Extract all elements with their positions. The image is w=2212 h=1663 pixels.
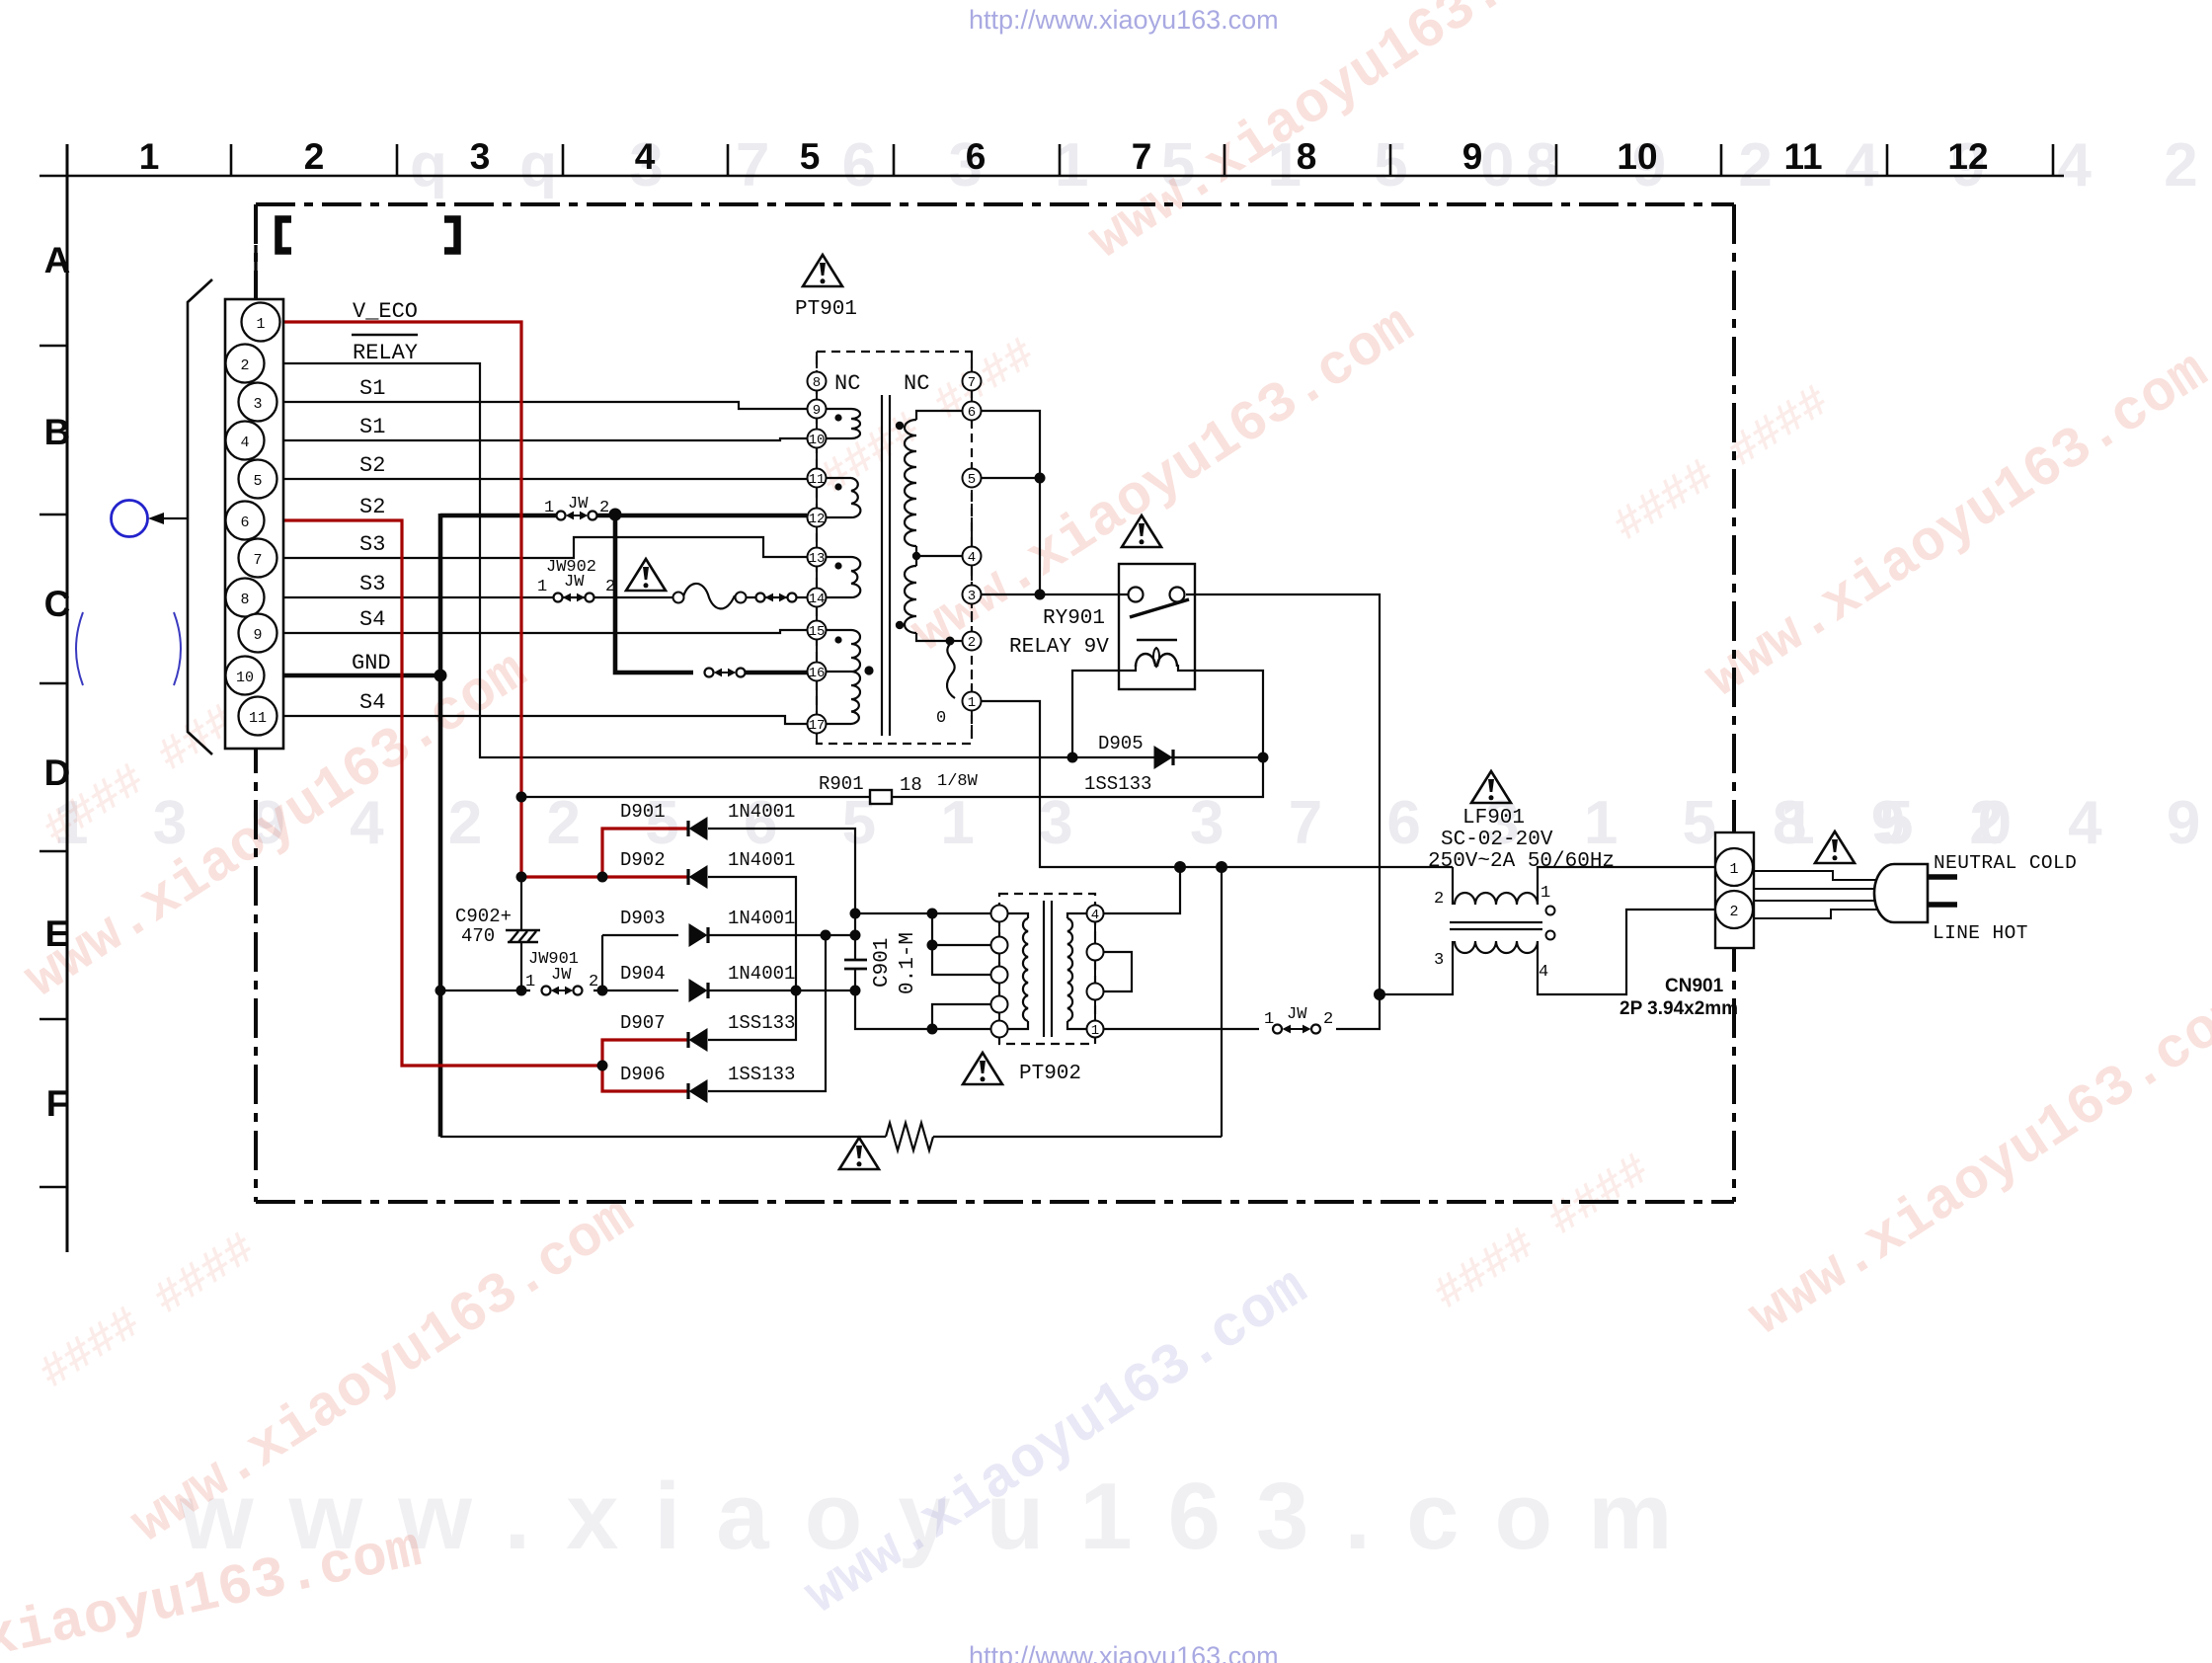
svg-text:http://www.xiaoyu163.com: http://www.xiaoyu163.com xyxy=(969,1641,1279,1663)
PT901 secondary winding lower xyxy=(905,556,950,641)
svg-text:3: 3 xyxy=(968,589,976,604)
svg-text:#### ####: #### #### xyxy=(1425,1145,1659,1321)
warning LF901 xyxy=(1471,771,1511,803)
svg-text:10: 10 xyxy=(809,433,826,448)
wire D903/D904 left link xyxy=(601,935,603,990)
pin 5 xyxy=(239,460,277,499)
plug prongs xyxy=(1928,874,1957,880)
svg-text:1: 1 xyxy=(544,499,554,517)
PT902 pin circles xyxy=(991,906,1104,1038)
svg-text:D906: D906 xyxy=(620,1064,666,1085)
pin 3 xyxy=(239,383,277,422)
wire D905 row xyxy=(1072,756,1263,758)
svg-text:4: 4 xyxy=(635,136,656,177)
wire LF901 pin4 to CN901 pin2 xyxy=(1538,910,1715,994)
LF901 phase circles xyxy=(1546,907,1555,915)
svg-text:1: 1 xyxy=(139,136,160,177)
svg-text:1SS133: 1SS133 xyxy=(728,1064,795,1085)
jumper pin16 xyxy=(705,669,746,677)
svg-text:NEUTRAL COLD: NEUTRAL COLD xyxy=(1934,852,2077,874)
node AC rail bottom riser xyxy=(1216,861,1227,873)
relay contacts xyxy=(1129,588,1144,602)
svg-text:8 9 2 4 9 4 2 9: 8 9 2 4 9 4 2 9 xyxy=(1773,789,2212,857)
PT901 core xyxy=(881,395,883,736)
wire S2 pin6 red rail xyxy=(279,520,602,1066)
diode D906 xyxy=(688,1079,708,1103)
wire pin9 S4 to PT901 pin15 xyxy=(279,630,807,633)
wire JW901 row xyxy=(440,990,530,991)
node red D902 row left xyxy=(516,872,527,883)
svg-text:8: 8 xyxy=(240,592,249,608)
resistor R901 body xyxy=(870,790,892,804)
svg-text:2: 2 xyxy=(1729,904,1738,920)
node C901 top D903 xyxy=(850,930,861,941)
node blue circle xyxy=(112,501,148,537)
fuse wavy wire xyxy=(683,584,735,608)
pin 2 xyxy=(226,345,265,383)
svg-text:14: 14 xyxy=(809,592,826,607)
dash-dot schematic border xyxy=(256,204,1734,1202)
blue parens marks xyxy=(76,612,83,685)
svg-text:11: 11 xyxy=(809,472,826,488)
svg-text:2: 2 xyxy=(1434,890,1444,909)
svg-text:1SS133: 1SS133 xyxy=(1084,773,1151,795)
svg-text:E: E xyxy=(45,913,70,954)
svg-text:1: 1 xyxy=(1264,1010,1274,1029)
wire pin7 S3 to PT901 pin13 xyxy=(279,537,807,558)
svg-text:http://www.xiaoyu163.com: http://www.xiaoyu163.com xyxy=(969,5,1279,35)
PT901 right pin column dashed xyxy=(971,352,973,736)
jumper JW PT902 xyxy=(1273,1025,1320,1034)
svg-text:GND: GND xyxy=(352,651,391,675)
svg-text:18: 18 xyxy=(900,774,922,796)
svg-text:RELAY: RELAY xyxy=(353,341,418,365)
svg-text:www.xiaoyu163.com: www.xiaoyu163.com xyxy=(794,1256,1319,1628)
wire R901 to D905 node xyxy=(892,757,1263,797)
svg-text:1: 1 xyxy=(525,973,535,991)
wire pin8 S3 through JW902 to PT901 pin14 xyxy=(279,596,678,598)
svg-text:S3: S3 xyxy=(359,532,385,557)
svg-text:6: 6 xyxy=(968,405,976,421)
warning PT901 xyxy=(803,255,842,286)
row ticks xyxy=(39,345,67,348)
svg-text:CN901: CN901 xyxy=(1665,976,1724,996)
CN901 body xyxy=(1715,832,1754,948)
svg-text:D904: D904 xyxy=(620,963,666,985)
svg-text:F: F xyxy=(46,1083,69,1124)
svg-text:2: 2 xyxy=(968,635,976,651)
svg-text:PT902: PT902 xyxy=(1019,1063,1081,1085)
node PT902 L1/L2 xyxy=(927,909,938,919)
node red rail D906/D907 xyxy=(597,1061,608,1071)
node JW901 cap xyxy=(516,986,527,996)
svg-text:15: 15 xyxy=(809,624,826,640)
ruler left line xyxy=(66,144,69,1252)
wire PT902 pin1 jumper line xyxy=(1103,1028,1259,1030)
svg-text:2: 2 xyxy=(304,136,325,177)
svg-text:D905: D905 xyxy=(1098,733,1144,754)
wire LF901 pin1 to CN901 pin1 xyxy=(1538,867,1715,905)
wire R901 row xyxy=(521,796,870,798)
wire JW row to PT901 pin12 xyxy=(440,514,561,518)
pin 11 xyxy=(239,697,277,736)
svg-text:SC-02-20V: SC-02-20V xyxy=(1441,829,1553,851)
svg-text:R901: R901 xyxy=(819,773,864,795)
warning PT902 xyxy=(963,1053,1002,1084)
wire PT901 pin5 to rail xyxy=(981,477,1040,479)
wire GND pin10 to junction xyxy=(279,673,440,678)
wire PT902 L2 branch xyxy=(932,913,991,945)
node PT901 rail pin3 xyxy=(1035,590,1046,600)
connector bracket xyxy=(188,279,212,754)
pin 9 xyxy=(239,614,277,653)
svg-text:4: 4 xyxy=(1091,908,1099,923)
jumper JW top xyxy=(557,512,597,520)
plug wire 2 xyxy=(1754,900,1888,902)
svg-text:250V~2A 50/60Hz: 250V~2A 50/60Hz xyxy=(1428,850,1615,873)
svg-text:470: 470 xyxy=(461,925,495,947)
resistor zigzag xyxy=(886,1123,933,1150)
svg-text:S1: S1 xyxy=(359,376,385,401)
node D905 right xyxy=(1258,752,1269,763)
svg-text:LF901: LF901 xyxy=(1462,807,1525,830)
svg-text:9: 9 xyxy=(1462,136,1483,177)
plug body xyxy=(1874,864,1928,922)
PT902 right winding xyxy=(1067,913,1087,1029)
svg-text:1SS133: 1SS133 xyxy=(728,1012,795,1034)
svg-text:7: 7 xyxy=(968,375,976,391)
svg-text:B: B xyxy=(44,412,71,452)
fuse circles pin14 wavy xyxy=(673,593,684,603)
wire D903 anode row xyxy=(602,934,678,936)
pin 1 xyxy=(242,303,280,342)
wire PT902 L5 stub xyxy=(932,1028,991,1030)
wire PT902 L3 branch xyxy=(932,945,991,975)
node R901/red junction xyxy=(516,792,527,803)
LF901 bottom winding xyxy=(1455,941,1538,953)
warning JW902 fuse xyxy=(626,559,666,591)
node red D901/D902 branch xyxy=(597,872,608,883)
diode D903 xyxy=(689,923,709,947)
wire D906 cathode riser xyxy=(708,935,826,1091)
svg-text:5: 5 xyxy=(253,473,262,490)
wire pin3 S1 to PT901 pin9 xyxy=(279,402,807,409)
svg-text:C: C xyxy=(44,584,71,624)
wire PT902 L1 row xyxy=(855,912,991,914)
wire relay coil left leg xyxy=(1072,665,1136,757)
svg-text:D907: D907 xyxy=(620,1012,666,1034)
svg-text:6: 6 xyxy=(966,136,987,177)
node PT902 L4/L5 xyxy=(927,1024,938,1035)
jumper JW901 xyxy=(542,987,583,995)
junction dots xyxy=(434,473,1386,1071)
svg-text:2: 2 xyxy=(589,973,598,991)
wire V_ECO pin1 red xyxy=(279,322,521,877)
svg-text:4: 4 xyxy=(1539,963,1548,982)
wire red to D906 xyxy=(602,1066,688,1091)
plug wire 1 xyxy=(1754,871,1888,918)
svg-text:NC: NC xyxy=(904,371,929,396)
svg-text:12: 12 xyxy=(1947,136,1988,177)
svg-text:JW: JW xyxy=(1287,1005,1307,1024)
node C901 bottom D904 xyxy=(850,986,861,996)
diode D904 xyxy=(689,979,709,1002)
svg-text:3: 3 xyxy=(1434,951,1444,970)
wire red to D901 cathode xyxy=(521,875,688,878)
svg-text:S2: S2 xyxy=(359,453,385,478)
arrow to blue circle xyxy=(153,517,188,519)
node PT901 pin2 tap xyxy=(946,637,955,646)
thick black wires xyxy=(279,514,807,1137)
svg-text:9: 9 xyxy=(813,403,821,419)
node D903 row / D906 riser xyxy=(821,930,831,941)
node PT901 rail pin5 xyxy=(1035,473,1046,484)
wire bottom rail riser xyxy=(1221,867,1223,1137)
wire fuse squiggle to pin14 xyxy=(741,596,807,598)
svg-text:D902: D902 xyxy=(620,849,666,871)
svg-text:5: 5 xyxy=(800,136,821,177)
wire D903 row right xyxy=(708,934,855,936)
svg-text:S4: S4 xyxy=(359,690,385,715)
svg-text:PT901: PT901 xyxy=(795,298,857,321)
PT901 primary coil 11-12 xyxy=(826,478,860,517)
relay RY901 box xyxy=(1119,564,1195,689)
PT901 primary coil 13-14 xyxy=(826,557,860,597)
svg-text:4: 4 xyxy=(968,550,976,566)
warning RY901 xyxy=(1122,515,1161,547)
wire trunk to pin16 row xyxy=(615,515,693,673)
svg-text:LINE HOT: LINE HOT xyxy=(1933,922,2028,944)
pin 6 xyxy=(226,502,265,540)
diode D902 xyxy=(688,865,708,889)
svg-text:2: 2 xyxy=(605,578,615,596)
node JW row junction xyxy=(609,509,622,521)
svg-text:16: 16 xyxy=(809,666,826,681)
svg-text:JW: JW xyxy=(568,495,589,514)
LF901 core xyxy=(1450,922,1542,929)
svg-text:C901: C901 xyxy=(871,938,894,988)
svg-text:2P 3.94x2mm: 2P 3.94x2mm xyxy=(1619,998,1738,1019)
node PT902 L2/L3 xyxy=(927,940,938,951)
node LF901 pin3 xyxy=(1374,989,1385,1000)
svg-text:#### ####: #### #### xyxy=(1605,376,1839,553)
svg-text:S2: S2 xyxy=(359,495,385,519)
pin 7 xyxy=(239,539,277,578)
wire node to LF901 pin3 xyxy=(1380,941,1453,994)
ruler top line xyxy=(39,175,2064,178)
svg-text:D: D xyxy=(44,752,71,793)
diode D907 xyxy=(688,1028,708,1052)
svg-text:1N4001: 1N4001 xyxy=(728,908,795,929)
svg-text:9: 9 xyxy=(253,627,262,644)
wire D902 anode down xyxy=(708,877,796,1040)
PT901 pin2-pin1 squiggle xyxy=(947,644,955,698)
node D905 left xyxy=(1067,752,1078,763)
svg-text:5: 5 xyxy=(968,472,976,488)
wire PT901 pin3 to relay contact xyxy=(981,594,1128,595)
PT901 primary coil 9-10 xyxy=(826,409,860,438)
warning CN901 xyxy=(1815,831,1855,863)
capacitor C901 plates xyxy=(844,960,867,969)
svg-text:1: 1 xyxy=(1729,861,1738,878)
relay lever xyxy=(1130,599,1189,617)
svg-text:1: 1 xyxy=(1540,884,1550,903)
node AC rail PT902 pin4 xyxy=(1174,861,1186,873)
PT901 primary coil 15-17 xyxy=(826,630,860,724)
capacitor C902 electrolytic hatch xyxy=(506,930,540,942)
svg-text:1: 1 xyxy=(1091,1023,1099,1039)
warning bottom resistor xyxy=(839,1138,879,1169)
wire PT902 pin4 to AC rail xyxy=(1103,867,1180,913)
svg-text:12: 12 xyxy=(809,512,826,527)
svg-text:6: 6 xyxy=(240,515,249,531)
jumper JW902 xyxy=(554,594,594,602)
svg-text:10: 10 xyxy=(1617,136,1657,177)
thick CJK brackets xyxy=(278,219,291,251)
svg-text:A: A xyxy=(44,240,71,280)
wire pin11 S4 to PT901 pin17 xyxy=(279,716,807,724)
column ticks xyxy=(230,144,233,176)
svg-text:13: 13 xyxy=(809,551,826,567)
wire relay output to LF901 pin3 node xyxy=(1186,594,1380,1029)
svg-text:V_ECO: V_ECO xyxy=(353,299,418,324)
wire PT901 pin2 stub xyxy=(950,640,963,642)
svg-text:8: 8 xyxy=(1297,136,1317,177)
node D904 left xyxy=(597,986,608,996)
wire C901 column below cap xyxy=(855,969,932,1029)
svg-text:JW: JW xyxy=(564,573,585,592)
wire pin2 RELAY to relay coil node xyxy=(279,363,1072,757)
svg-text:RELAY 9V: RELAY 9V xyxy=(1009,636,1109,659)
wire bottom rail right of resistor xyxy=(933,1136,1222,1138)
svg-text:3: 3 xyxy=(253,396,262,413)
svg-text:1: 1 xyxy=(968,695,976,711)
svg-text:7: 7 xyxy=(253,552,262,569)
svg-text:0: 0 xyxy=(936,709,946,728)
svg-text:11: 11 xyxy=(249,710,267,727)
svg-text:2: 2 xyxy=(1323,1010,1333,1029)
transformer PT902 box xyxy=(999,894,1095,1044)
svg-text:S3: S3 xyxy=(359,572,385,596)
svg-text:1: 1 xyxy=(537,578,547,596)
svg-text:C902+: C902+ xyxy=(455,906,512,927)
red wires xyxy=(279,322,688,1091)
wire pin5 S2 to PT901 pin11 xyxy=(279,478,807,479)
svg-text:1: 1 xyxy=(256,316,265,333)
connector top lead xyxy=(254,245,257,304)
svg-text:10: 10 xyxy=(236,670,254,686)
svg-text:S1: S1 xyxy=(359,415,385,439)
pin 10 xyxy=(226,657,265,695)
svg-text:3: 3 xyxy=(470,136,491,177)
svg-text:4: 4 xyxy=(240,435,249,451)
wire D904 row right xyxy=(708,990,855,991)
diode D901 xyxy=(688,817,708,840)
svg-text:D901: D901 xyxy=(620,801,666,823)
svg-text:1N4001: 1N4001 xyxy=(728,963,795,985)
svg-text:2: 2 xyxy=(599,499,609,517)
PT902 left winding xyxy=(1007,913,1028,1029)
PT901 pin circles xyxy=(808,372,982,734)
wire PT901 pin1 to LF filter rail xyxy=(981,701,1453,867)
svg-text:0.1-M: 0.1-M xyxy=(897,932,919,994)
PT902 right middle loop xyxy=(1103,952,1132,991)
node D904/D902/D907 xyxy=(791,986,802,996)
diode D905 xyxy=(1154,746,1174,769)
wire relay coil right leg xyxy=(1178,665,1263,757)
node GND junction xyxy=(434,670,447,682)
wire GND vertical trunk xyxy=(438,514,443,1137)
svg-text:RY901: RY901 xyxy=(1043,607,1105,630)
node C901 top L1 xyxy=(850,909,861,919)
svg-text:S4: S4 xyxy=(359,607,385,632)
wire PT902 L4 branch xyxy=(932,1004,991,1029)
pin 8 xyxy=(226,579,265,617)
svg-text:1/8W: 1/8W xyxy=(937,772,979,791)
LF901 top winding xyxy=(1452,867,1454,905)
svg-text:1N4001: 1N4001 xyxy=(728,849,795,871)
PT901 left pin column xyxy=(816,372,818,741)
svg-text:1N4001: 1N4001 xyxy=(728,801,795,823)
pin 4 xyxy=(226,422,265,460)
node JW901 left xyxy=(435,986,446,996)
wire JW901 to D904 xyxy=(593,990,678,991)
PT902 core xyxy=(1043,901,1045,1037)
svg-text:D903: D903 xyxy=(620,908,666,929)
svg-text:NC: NC xyxy=(834,371,860,396)
svg-text:2: 2 xyxy=(240,357,249,374)
PT901 secondary winding upper xyxy=(905,411,963,556)
connector body xyxy=(225,299,283,749)
wire D901 anode down to C901 column xyxy=(708,829,855,960)
transformer PT901 box xyxy=(817,352,972,744)
svg-text:www.xiaoyu163.com: www.xiaoyu163.com xyxy=(1738,978,2212,1350)
wire red to D907 xyxy=(602,1040,688,1066)
svg-text:7: 7 xyxy=(1132,136,1152,177)
svg-text:8: 8 xyxy=(813,375,821,391)
svg-text:11: 11 xyxy=(1783,136,1822,177)
relay coil xyxy=(1137,639,1177,641)
svg-text:www.xiaoyu163.com: www.xiaoyu163.com xyxy=(1695,340,2212,712)
wire PT901 pin6 down-rail xyxy=(981,411,1040,594)
PT902 pin columns xyxy=(998,905,1000,1037)
connector pair pin14 xyxy=(756,594,797,602)
svg-text:17: 17 xyxy=(809,718,826,734)
wire C902 vertical xyxy=(520,877,522,990)
wire red D901 branch xyxy=(602,829,688,877)
svg-text:JW: JW xyxy=(551,966,572,985)
PT901 winding polarity dots xyxy=(834,414,873,674)
wire pin4 S1 to PT901 pin10 xyxy=(279,438,807,440)
wire bottom rail left of resistor xyxy=(440,1136,886,1138)
